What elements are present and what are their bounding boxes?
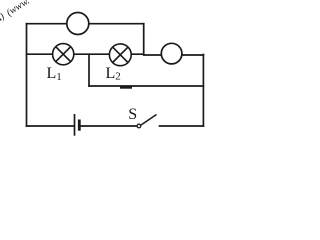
- watermark: [0, 0, 32, 26]
- meter circle (right, unlabeled): [161, 43, 182, 64]
- switch S: [137, 115, 156, 128]
- thick mark on middle branch wire: [120, 86, 132, 89]
- wire: middle branch vertical: [88, 54, 90, 86]
- lamp L2: [109, 44, 131, 66]
- svg-text:L2: L2: [106, 65, 121, 83]
- battery: [75, 114, 80, 136]
- lamp L1: [53, 44, 74, 65]
- svg-text:S: S: [128, 106, 137, 123]
- wire: lamp row horizontal (left of junction): [27, 53, 144, 55]
- svg-text:(www.: (www.: [5, 0, 32, 19]
- wire: switch to right corner: [160, 125, 204, 127]
- svg-text:L1: L1: [47, 65, 62, 83]
- wire: battery to switch: [80, 125, 137, 127]
- wire: middle branch horizontal: [89, 85, 203, 87]
- wire: top-right vertical drop: [143, 24, 145, 55]
- wire: bottom left (battery to left corner): [27, 125, 75, 127]
- wire: top horizontal: [27, 23, 144, 25]
- wire: left vertical: [26, 24, 28, 126]
- meter circle (top, unlabeled): [67, 13, 89, 35]
- wire: right vertical: [202, 55, 204, 127]
- wire: lamp row horizontal (junction to right corner): [144, 54, 204, 56]
